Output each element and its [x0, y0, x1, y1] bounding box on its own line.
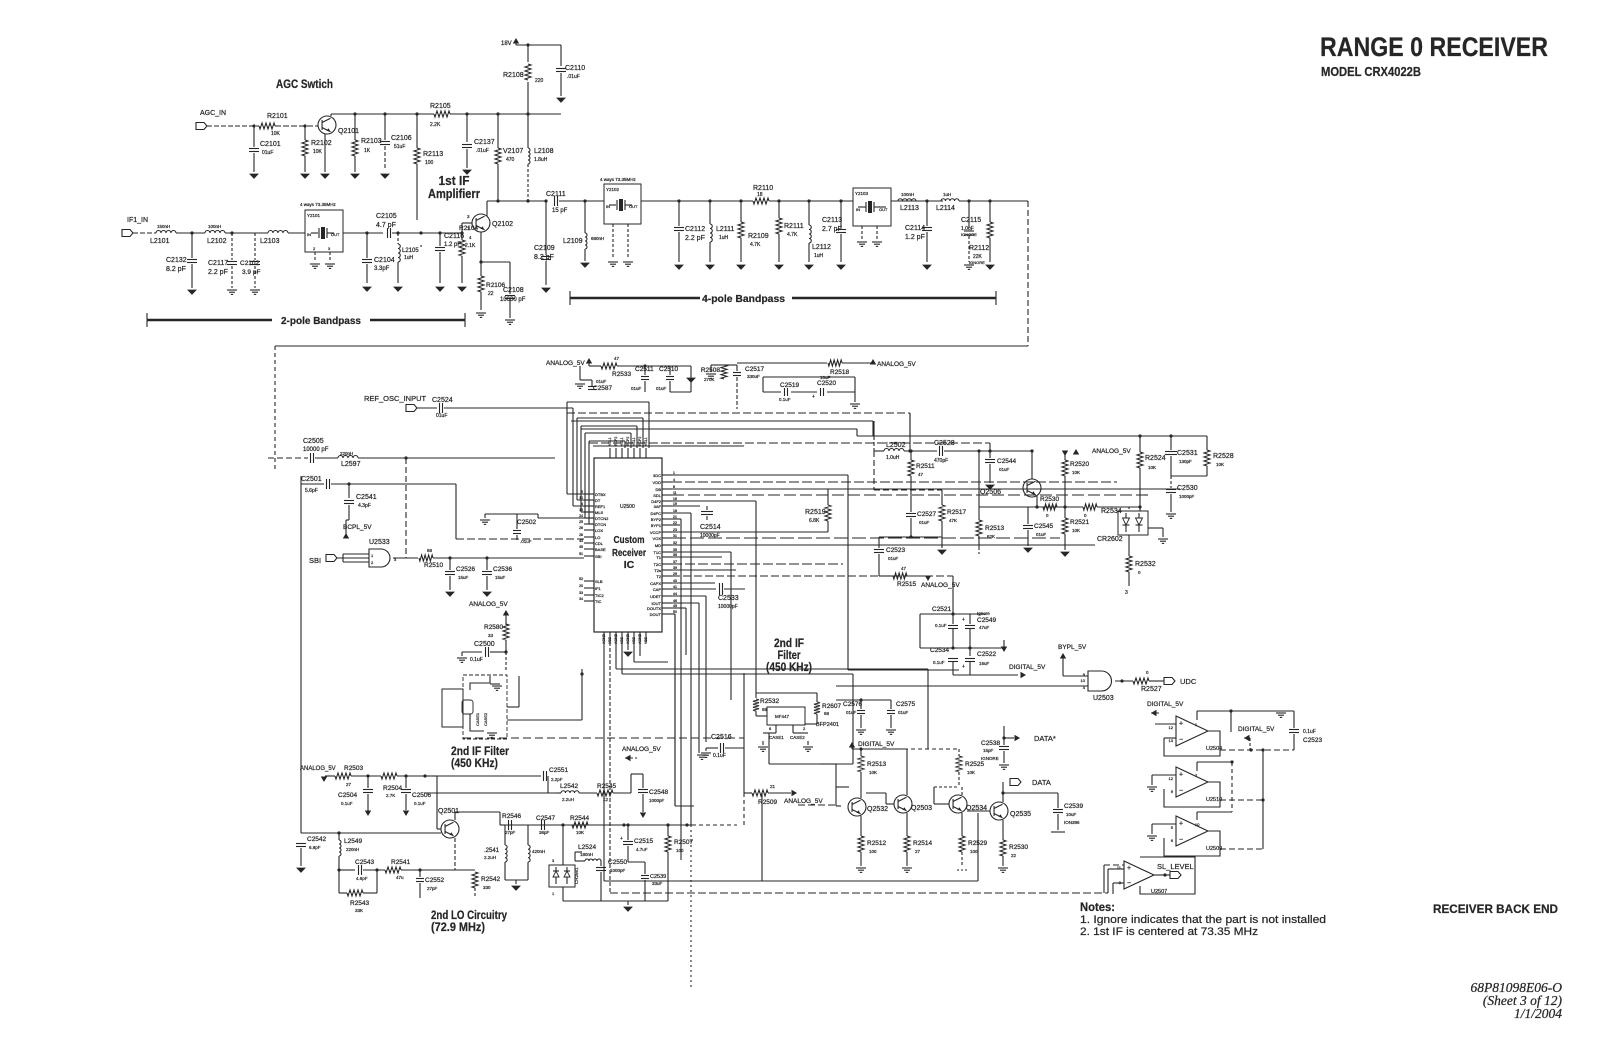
svg-text:C2526: C2526 [456, 566, 476, 573]
svg-text:27pF: 27pF [505, 830, 516, 835]
capacitor C2115 ignore [968, 201, 970, 228]
wire C2527 bottom join [879, 536, 942, 538]
svg-text:R2102: R2102 [311, 140, 332, 147]
svg-text:Receiver: Receiver [612, 547, 646, 559]
svg-text:ION396: ION396 [1064, 820, 1080, 825]
varactor box CR2561 [549, 865, 575, 887]
svg-text:6.8pF: 6.8pF [309, 845, 321, 850]
wire U2504 out row [1220, 749, 1294, 751]
supply ANALOG_5V at R2515 [907, 575, 926, 577]
svg-text:LOX: LOX [595, 528, 603, 533]
svg-text:6.8K: 6.8K [809, 518, 820, 524]
svg-text:BYPL_5V: BYPL_5V [1058, 644, 1087, 651]
ground C2538 [999, 764, 1009, 766]
svg-text:4 ways 73.35MHz: 4 ways 73.35MHz [300, 202, 337, 207]
svg-text:R2530: R2530 [1040, 496, 1060, 503]
wire pin8 fanout long [672, 488, 1180, 490]
wire x=744 to op4 [743, 793, 745, 825]
svg-text:10K: 10K [1148, 465, 1156, 470]
svg-text:AGC Swtich: AGC Swtich [276, 79, 333, 91]
wire R2545 to C2548 corner [613, 792, 631, 794]
ground C2506b [403, 811, 409, 817]
capacitor C2109 [545, 201, 547, 255]
svg-text:22: 22 [673, 521, 677, 525]
resistor R2532 [1128, 535, 1130, 556]
capacitor C2502 [485, 513, 538, 515]
svg-text:C2542: C2542 [307, 836, 327, 843]
svg-text:52: 52 [579, 577, 583, 581]
wire C2522 bottom row to DIGITAL_5V [953, 674, 970, 676]
wire R2110 to Y2103 [769, 200, 853, 202]
inductor L2111 [709, 201, 711, 224]
wire U2507 output SL_LEVEL [1154, 874, 1170, 876]
svg-text:2.7 pF: 2.7 pF [822, 226, 842, 233]
svg-text:R2518: R2518 [830, 369, 850, 376]
svg-text:SLB: SLB [595, 579, 603, 584]
svg-text:DOUTX: DOUTX [647, 606, 661, 611]
svg-text:BYP2: BYP2 [651, 517, 662, 522]
svg-text:36pF: 36pF [539, 830, 550, 835]
wire C2105 to C2116 [392, 232, 455, 234]
svg-text:01uF: 01uF [631, 386, 642, 391]
ground C2101 [250, 174, 258, 178]
svg-text:2.2pF: 2.2pF [551, 777, 563, 782]
capacitor C2521 [952, 614, 954, 624]
svg-text:T2: T2 [656, 574, 661, 579]
svg-text:01uF: 01uF [919, 520, 930, 525]
svg-text:CR2561: CR2561 [574, 867, 579, 884]
svg-text:RANGE 0 RECEIVER: RANGE 0 RECEIVER [1320, 32, 1548, 62]
svg-text:C2551: C2551 [549, 767, 569, 774]
svg-text:IGNORE: IGNORE [981, 756, 999, 761]
svg-text:1000pF: 1000pF [649, 798, 665, 803]
svg-text:1K: 1K [364, 148, 371, 154]
capacitor C2516 [706, 747, 718, 749]
wire analog rail y=436 [857, 435, 1207, 437]
capacitor C2117 [231, 233, 233, 260]
bus wire y=446 [593, 445, 744, 447]
inductor L2101 [156, 231, 176, 233]
capacitor C2543 series [339, 869, 355, 871]
svg-text:C2575: C2575 [896, 701, 916, 708]
svg-text:1uH: 1uH [814, 253, 824, 259]
svg-text:39: 39 [673, 566, 677, 570]
wire L2101 to L2102 [176, 232, 205, 234]
wire x=910 drop to L2502 [909, 413, 911, 451]
wire LO bottom rail dash right [692, 824, 737, 826]
ground R2111 [775, 265, 783, 269]
svg-text:41: 41 [673, 585, 677, 589]
svg-text:10K: 10K [869, 770, 877, 775]
svg-text:U2533: U2533 [369, 539, 390, 546]
ground C2526 [446, 592, 454, 596]
svg-text:R2527: R2527 [1141, 686, 1162, 693]
wire bottom rail left of C2547 [500, 824, 540, 826]
svg-text:13: 13 [579, 508, 583, 512]
svg-text:10uF: 10uF [820, 375, 831, 380]
svg-text:R2514: R2514 [913, 840, 933, 847]
capacitor C2539 [1057, 793, 1059, 808]
transistor Q2532 [848, 798, 866, 816]
svg-text:10000pF: 10000pF [718, 604, 738, 610]
inductor L2113 series [898, 199, 916, 201]
svg-text:R2532: R2532 [760, 698, 780, 705]
ground L2544 L2541 row [505, 879, 528, 881]
svg-text:C2543: C2543 [355, 859, 375, 866]
ground C2548 [640, 813, 646, 819]
svg-text:33: 33 [579, 591, 583, 595]
svg-text:0.1uF: 0.1uF [341, 801, 353, 806]
wire C2510 to ground [670, 391, 691, 393]
wire Q2501 base [425, 775, 437, 777]
resistor R2514 [904, 836, 910, 852]
svg-text:U2504: U2504 [1206, 746, 1222, 752]
ground below IC [627, 642, 629, 650]
svg-text:2.1K: 2.1K [465, 243, 476, 249]
ground C2112 [675, 265, 683, 269]
svg-text:U2510: U2510 [1206, 797, 1222, 803]
svg-text:01uF: 01uF [898, 710, 909, 715]
svg-text:4: 4 [581, 502, 583, 506]
svg-text:C2510: C2510 [659, 366, 679, 373]
ground C2536 [483, 592, 491, 596]
inductor L2102 [205, 231, 225, 233]
svg-text:U2503: U2503 [1093, 695, 1114, 702]
svg-text:IF1: IF1 [595, 586, 602, 591]
svg-text:R2111: R2111 [784, 223, 804, 230]
crystal filter Y2102 [604, 184, 641, 224]
wire U2504 feedback box [1164, 731, 1220, 756]
svg-text:4.7K: 4.7K [787, 232, 798, 238]
svg-text:C2500: C2500 [474, 641, 495, 648]
svg-text:68: 68 [824, 711, 830, 716]
wire U2509 top out [1196, 812, 1198, 820]
svg-text:.2541: .2541 [484, 848, 500, 854]
resistor R2509 series [752, 790, 768, 796]
svg-text:Q2535: Q2535 [1010, 811, 1031, 818]
svg-text:24: 24 [579, 514, 583, 518]
ground C2102 [250, 289, 260, 291]
capacitor C2110 [560, 45, 562, 66]
svg-text:C2522: C2522 [977, 651, 997, 658]
ground C2544 [986, 485, 994, 489]
svg-text:26: 26 [579, 526, 583, 530]
svg-text:C2114: C2114 [905, 225, 925, 232]
svg-text:R2520: R2520 [1070, 461, 1090, 468]
resistor R2112 [989, 201, 991, 222]
2nd IF filter FL2501 ground top [490, 683, 500, 685]
svg-text:C2516: C2516 [711, 734, 732, 741]
svg-text:31: 31 [673, 534, 677, 538]
svg-text:3.3pF: 3.3pF [374, 266, 390, 272]
svg-text:150nH: 150nH [157, 224, 170, 229]
wire C2550 bottom row [563, 900, 668, 902]
svg-text:C2108: C2108 [503, 287, 524, 294]
wire L2597 to bus [358, 457, 555, 459]
inductor L2109 [584, 201, 586, 233]
resistor R2530 series [1043, 504, 1057, 510]
svg-text:R2507: R2507 [674, 839, 694, 846]
svg-text:C2523: C2523 [1303, 737, 1323, 744]
svg-text:2.2K: 2.2K [430, 122, 441, 128]
wire AGC_IN to R2101 [207, 125, 259, 127]
wire 1st IF output y=201 [487, 200, 546, 202]
capacitor C2575 [890, 700, 892, 709]
svg-text:3DC: 3DC [653, 473, 661, 478]
svg-text:C2523: C2523 [886, 547, 906, 554]
svg-text:62K: 62K [987, 534, 995, 539]
supply ANALOG_5V top right [1073, 449, 1079, 455]
svg-text:DB: DB [655, 487, 661, 492]
resistor R2544 series [572, 822, 588, 828]
bus wire y=421 long [571, 420, 873, 422]
inductor L2542 series [556, 792, 561, 794]
diode pair CR2602 [1118, 511, 1148, 535]
svg-text:01uF: 01uF [656, 386, 667, 391]
svg-text:20: 20 [579, 584, 583, 588]
wire FL2502 top connects [756, 692, 817, 694]
capacitor C2528 series [939, 446, 941, 456]
svg-text:VOX: VOX [653, 536, 662, 541]
wire Q2506 emitter to R2530 row [1036, 495, 1038, 507]
capacitor C2101 [252, 124, 255, 127]
svg-text:10: 10 [1195, 822, 1200, 827]
svg-text:+: + [1179, 772, 1183, 779]
bus wire y=443 long dash [589, 442, 990, 444]
ground C2110 [557, 98, 565, 102]
capacitor C2548 [642, 774, 644, 788]
svg-text:47uF: 47uF [979, 625, 990, 630]
bus verticals below IC [603, 642, 605, 881]
wire pin21 fanout [672, 518, 681, 520]
svg-text:OUT: OUT [879, 207, 888, 212]
ground C2504 [365, 811, 371, 817]
resistor R2110 series [753, 198, 769, 204]
capacitor C2526 [449, 558, 451, 570]
svg-text:220nH: 220nH [340, 451, 353, 456]
resistor R2580 [503, 624, 509, 640]
svg-text:REF1: REF1 [595, 504, 606, 509]
bus wire y=413 long [567, 412, 910, 414]
wire U2509 ground input [1152, 823, 1176, 825]
resistor R2105 [434, 111, 450, 117]
svg-text:R2525: R2525 [965, 761, 985, 768]
svg-text:10K: 10K [1072, 528, 1080, 533]
wire pin40 fanout [672, 582, 715, 584]
svg-text:4 ways 73.35MHz: 4 ways 73.35MHz [600, 177, 637, 182]
svg-text:−: − [1127, 880, 1131, 887]
svg-text:16: 16 [673, 497, 677, 501]
svg-text:R2108: R2108 [503, 72, 524, 79]
wire bottom run y=893 dash [1107, 869, 1109, 893]
svg-text:ANALOG_5V: ANALOG_5V [546, 360, 585, 367]
wire R2527 to UDC [1149, 680, 1164, 682]
svg-text:10K: 10K [967, 770, 975, 775]
svg-text:+: + [962, 664, 965, 670]
capacitor C2105 series [387, 228, 389, 238]
svg-text:33: 33 [488, 633, 494, 638]
svg-text:8: 8 [673, 485, 675, 489]
svg-text:IF1_IN: IF1_IN [127, 217, 148, 224]
capacitor C2552 [419, 870, 421, 877]
svg-text:C2110: C2110 [565, 65, 585, 72]
svg-text:IGNORE: IGNORE [961, 232, 977, 237]
svg-text:UDET: UDET [650, 594, 661, 599]
bus wire y=441 [589, 440, 625, 442]
ground R2529 [957, 869, 967, 871]
inductor L2114 series [941, 199, 959, 201]
crystal filter Y2101 [305, 210, 343, 252]
capacitor C2551 series [543, 771, 545, 781]
wire emitter row [1028, 506, 1083, 508]
svg-text:.01uF: .01uF [567, 74, 580, 80]
resistor R2510 series [419, 555, 433, 561]
svg-text:BYP1: BYP1 [651, 523, 662, 528]
svg-text:C2104: C2104 [374, 257, 395, 264]
svg-text:37: 37 [673, 560, 677, 564]
bus vertical x=675 lower [674, 614, 676, 806]
svg-text:10K: 10K [313, 149, 323, 155]
wire to Q2102 base [455, 232, 462, 234]
svg-text:3AF: 3AF [654, 504, 662, 509]
wire caps top rail [836, 699, 891, 701]
wire U2510 top out [1196, 762, 1198, 771]
svg-text:CASE2: CASE2 [483, 712, 488, 726]
svg-text:12: 12 [1169, 725, 1174, 730]
svg-text:L2524: L2524 [578, 844, 596, 851]
svg-text:C2105: C2105 [376, 213, 397, 220]
wire pin4 fanout long [672, 481, 1117, 483]
wire LO bottom rail y=825 [540, 824, 692, 826]
ground R2104 [458, 287, 466, 291]
svg-text:47K: 47K [949, 518, 957, 523]
svg-text:0.1uF: 0.1uF [1303, 729, 1316, 735]
svg-text:DTCN: DTCN [595, 522, 606, 527]
filter FL2502 box [767, 707, 805, 725]
ground C2576 [856, 729, 866, 731]
bus verticals down left side [566, 402, 568, 494]
wire R2509 to arrow [768, 792, 791, 794]
capacitor C2500 [462, 651, 482, 653]
svg-text:R2101: R2101 [267, 113, 288, 120]
wire R2541 to C2552 node [401, 869, 452, 871]
capacitor C2587 [579, 366, 581, 380]
svg-text:100: 100 [676, 848, 684, 853]
svg-text:ANALOG_5V: ANALOG_5V [469, 601, 508, 608]
ground on rail [1276, 712, 1286, 714]
svg-text:C2541: C2541 [356, 494, 377, 501]
svg-text:YCL1: YCL1 [608, 437, 612, 446]
ground R2102 [301, 174, 309, 178]
wire Q2535 emitter to R2530b [1002, 820, 1004, 840]
svg-text:YCL1: YCL1 [644, 437, 648, 446]
resistor R2533 [601, 363, 617, 369]
bus wire y=433 [585, 432, 631, 434]
wire U2504 inputs [1155, 723, 1176, 725]
svg-text:Q2503: Q2503 [911, 805, 932, 812]
svg-text:.01uF: .01uF [520, 539, 532, 544]
capacitor C2576 [860, 700, 862, 709]
svg-text:C2530: C2530 [1177, 485, 1198, 492]
svg-text:4.7uF: 4.7uF [636, 847, 648, 852]
svg-text:.01uF: .01uF [476, 148, 489, 154]
svg-text:IN: IN [856, 207, 860, 212]
capacitor C2111 series [554, 196, 556, 206]
ground C2587 [575, 383, 585, 385]
svg-text:270K: 270K [704, 377, 715, 382]
svg-text:51uF: 51uF [394, 144, 405, 150]
svg-text:680nH: 680nH [591, 236, 604, 241]
wire lower block left edge x=275 dashed [274, 346, 276, 470]
wire L2502 to C2528 [904, 450, 937, 452]
ground R2112 [986, 265, 994, 269]
svg-text:DTCN2: DTCN2 [595, 516, 609, 521]
svg-text:(450 KHz): (450 KHz) [451, 756, 498, 770]
svg-text:130pF: 130pF [1179, 459, 1192, 464]
wire pin1 fanout [672, 474, 848, 476]
wire Q2501 collector [454, 812, 456, 820]
svg-text:C2538: C2538 [981, 740, 1001, 747]
svg-text:40: 40 [673, 579, 677, 583]
svg-text:C2502: C2502 [517, 519, 537, 526]
node DATA* output [1002, 736, 1005, 739]
wire R2509 row [743, 792, 745, 794]
ground R2521 [1061, 552, 1069, 556]
wire L2542 to R2545 [579, 792, 597, 794]
capacitor C2545 [1027, 507, 1029, 524]
resistor R2507 [667, 825, 669, 836]
svg-text:R2541: R2541 [391, 859, 411, 866]
svg-text:21: 21 [770, 784, 776, 789]
bus wire y=402 [567, 401, 649, 403]
svg-text:68: 68 [427, 548, 433, 553]
svg-text:01uF: 01uF [846, 710, 857, 715]
svg-text:C2521: C2521 [932, 606, 952, 613]
wire pin39 fanout [672, 569, 736, 571]
wire C2543 to R2541 [363, 869, 385, 871]
svg-text:CAP: CAP [653, 587, 662, 592]
bus vertical x=699 lower [698, 603, 700, 753]
svg-text:21: 21 [673, 515, 677, 519]
wire R2101 to Q2101 base [275, 125, 318, 127]
svg-text:4.7K: 4.7K [750, 242, 761, 248]
svg-text:0.1uF: 0.1uF [470, 657, 483, 663]
svg-text:C2545: C2545 [1034, 523, 1054, 530]
svg-text:C2533: C2533 [718, 595, 739, 602]
svg-text:180nH: 180nH [580, 852, 593, 857]
svg-text:CASE1: CASE1 [475, 712, 480, 726]
wire C2551 to L2542 node [547, 776, 549, 793]
svg-text:DATA*: DATA* [1034, 734, 1056, 743]
svg-text:2.2uH: 2.2uH [484, 855, 496, 860]
ground R2103 [351, 174, 359, 178]
resistor R2545 series [597, 790, 613, 796]
svg-text:15 pF: 15 pF [552, 208, 568, 214]
svg-text:R2105: R2105 [430, 103, 451, 110]
wire DATA to Q2535 [1002, 782, 1004, 793]
svg-text:R2109: R2109 [748, 233, 769, 240]
svg-text:YCL1: YCL1 [632, 437, 636, 446]
svg-text:220nH: 220nH [346, 847, 359, 852]
svg-text:2.2uH: 2.2uH [562, 797, 574, 802]
ground C2575 [886, 729, 896, 731]
svg-text:C2501: C2501 [301, 476, 322, 483]
svg-text:L2542: L2542 [560, 783, 578, 790]
svg-text:01uF: 01uF [262, 150, 273, 156]
svg-text:1.0uH: 1.0uH [886, 455, 900, 461]
svg-text:MLS: MLS [595, 510, 604, 515]
resistor R2503 series [335, 773, 351, 779]
